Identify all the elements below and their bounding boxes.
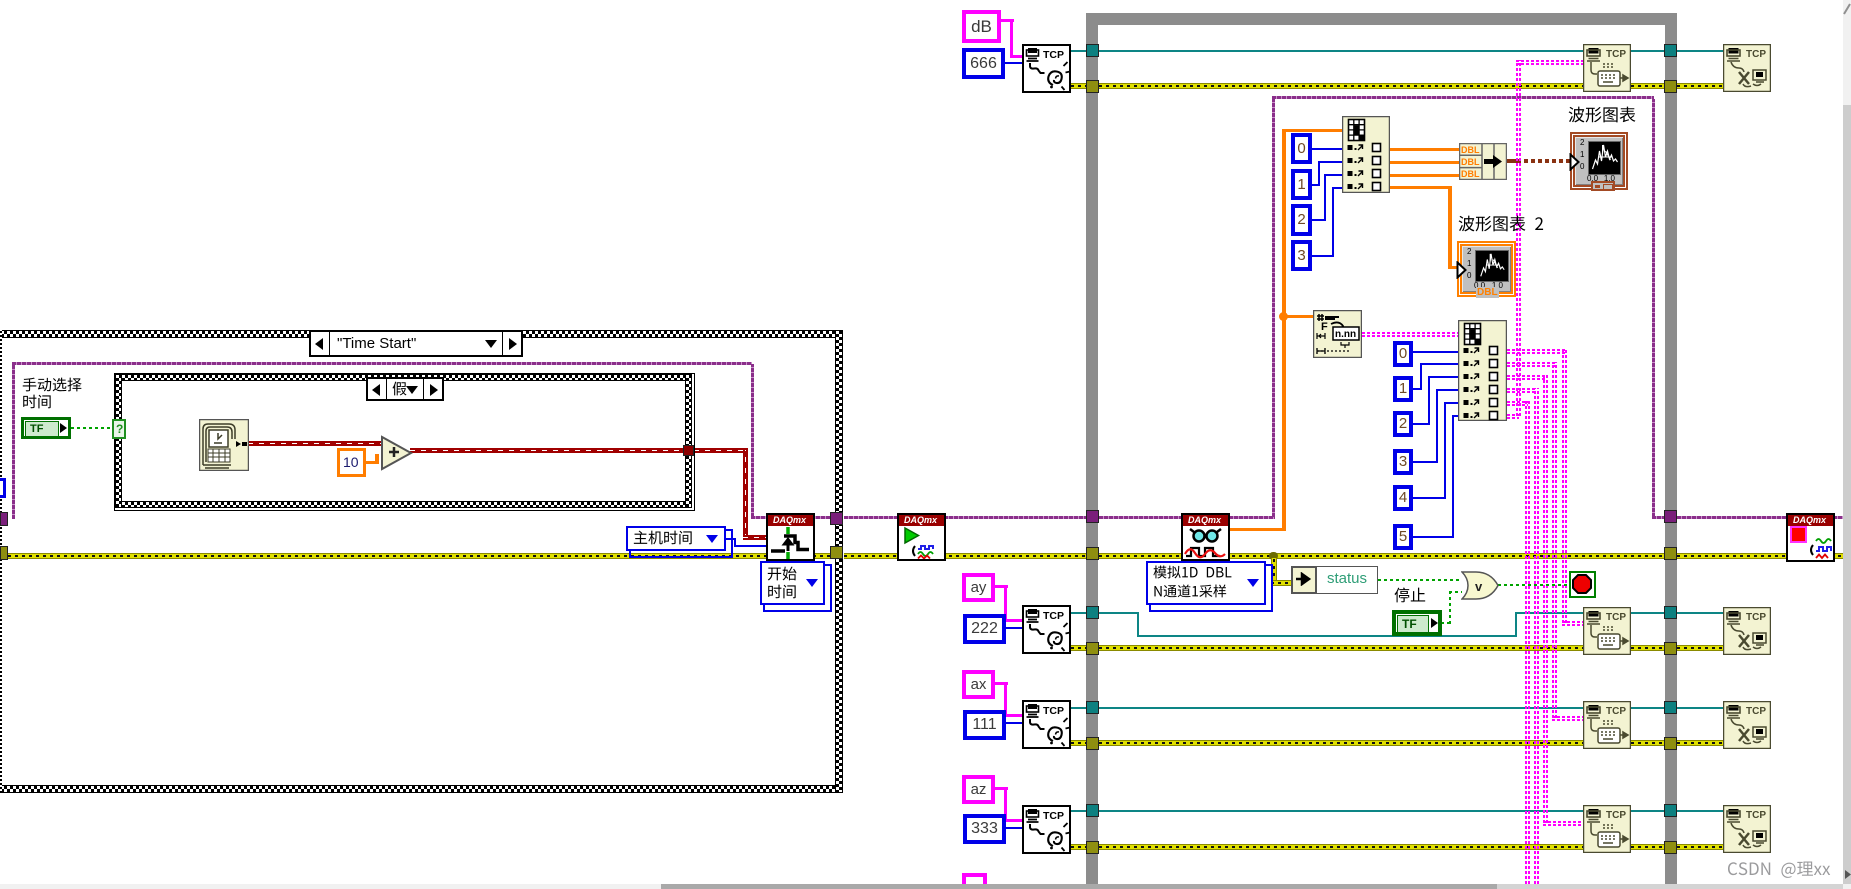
string control az bbox=[962, 775, 995, 804]
case structure Time Start border left bbox=[0, 330, 2, 793]
node index array 1 bbox=[1342, 116, 1390, 193]
tunnel teal loopL ax bbox=[1086, 701, 1099, 714]
while loop border left bbox=[1086, 13, 1098, 884]
svg-text:TCP: TCP bbox=[1746, 810, 1766, 821]
wire string az b bbox=[1004, 787, 1007, 819]
tunnel olive loopL ay bbox=[1086, 642, 1099, 655]
tunnel teal loopL dB bbox=[1086, 44, 1099, 57]
svg-text:F: F bbox=[1321, 321, 1328, 333]
wire string dB b bbox=[1010, 19, 1013, 55]
wire tcpref ay c bbox=[1137, 635, 1517, 637]
label stop bbox=[1394, 587, 1428, 608]
wire orange to chart2 vert bbox=[1448, 186, 1452, 269]
while loop border right bbox=[1665, 13, 1677, 884]
scrollbar right thumb bbox=[1843, 105, 1851, 884]
wire blue 111 bbox=[1006, 722, 1022, 724]
node TCP listener ax bbox=[1022, 700, 1071, 749]
wire blue idx1-1 b bbox=[1318, 161, 1320, 186]
node unbundle status bbox=[1291, 566, 1317, 594]
scrollbar right track bbox=[1843, 0, 1851, 889]
wire orange idx1 out4 bbox=[1390, 186, 1451, 189]
boolean control TF manual bbox=[21, 417, 71, 439]
label waveform chart 1 bbox=[1568, 106, 1638, 128]
wire task purple drop x752 bbox=[751, 364, 754, 517]
numeric control 666 bbox=[962, 48, 1005, 79]
wire string top tcp-write bbox=[1516, 60, 1583, 65]
wire blue idx2-2 a bbox=[1413, 423, 1430, 425]
case structure Time Start border bottom bbox=[0, 785, 843, 793]
node add bbox=[380, 435, 414, 471]
wire blue idx1-0 bbox=[1312, 148, 1346, 150]
wire tcpref ay a bbox=[1071, 612, 1086, 614]
wire blue 666 bbox=[1005, 62, 1022, 64]
ring constant start time bbox=[763, 564, 832, 612]
tunnel purple loopL bbox=[1086, 510, 1099, 523]
numeric control cut at left edge bbox=[0, 478, 6, 498]
wire string ax b bbox=[1004, 682, 1007, 714]
wire tcpref ay b bbox=[1099, 612, 1139, 614]
case structure Time Start border right bbox=[835, 330, 843, 793]
wire blue idx1-2 c bbox=[1324, 174, 1346, 176]
label waveform chart 2 bbox=[1458, 215, 1545, 237]
wire string idx2 r2 c bbox=[1552, 716, 1583, 721]
wire blue idx2-1 a bbox=[1413, 388, 1422, 390]
wire string ay b bbox=[1004, 585, 1007, 619]
tunnel teal loopR az bbox=[1664, 804, 1677, 817]
node DAQmx start trigger bbox=[766, 513, 815, 561]
node TCP close ax bbox=[1723, 701, 1771, 749]
numeric constant 10 bbox=[337, 448, 366, 477]
wire string idx2 r1 c bbox=[1562, 621, 1583, 626]
boolean control TF stop bbox=[1392, 610, 1442, 636]
tunnel olive loopR ay bbox=[1664, 642, 1677, 655]
tunnel olive loopR main bbox=[1664, 547, 1677, 560]
tunnel olive loopL az bbox=[1086, 841, 1099, 854]
tunnel teal loopL ay bbox=[1086, 606, 1099, 619]
numeric constant idx2-1 bbox=[1393, 376, 1413, 402]
wire tcpref dB row a bbox=[1071, 50, 1086, 52]
wire blue idx2-0 bbox=[1413, 351, 1462, 353]
wire blue idx2-2 b bbox=[1428, 376, 1430, 425]
wire task purple top-left run bbox=[12, 362, 752, 365]
wire task purple top run bbox=[1272, 96, 1654, 99]
wire blue idx2-2 c bbox=[1428, 376, 1462, 378]
wire orange read-out bbox=[1230, 528, 1286, 531]
numeric constant idx2-5 bbox=[1393, 524, 1413, 550]
wire orange idx1 out1 bbox=[1390, 148, 1459, 151]
wire error dB row c bbox=[1631, 83, 1664, 89]
wire blue idx2-3 c bbox=[1436, 389, 1462, 391]
wire error ay d bbox=[1677, 645, 1723, 651]
wire timestamp from datetime bbox=[248, 441, 382, 446]
svg-text:DBL: DBL bbox=[1461, 169, 1480, 179]
wire blue idx1-3 b bbox=[1332, 187, 1334, 257]
wire task purple loop-to-read bbox=[1099, 516, 1275, 519]
wire tcpref dB row b bbox=[1099, 50, 1583, 52]
ring constant analog mode bbox=[1149, 564, 1273, 612]
wire blue hosttime b bbox=[734, 538, 736, 546]
numeric control 333 bbox=[963, 814, 1006, 844]
wire task purple vert left edge bbox=[12, 363, 15, 519]
wire error drop to status bbox=[1271, 558, 1277, 583]
wire orange 10-to-add bbox=[366, 461, 378, 464]
svg-text:TCP: TCP bbox=[1746, 612, 1766, 623]
tunnel olive case-right bbox=[830, 546, 843, 559]
string control ax bbox=[962, 670, 995, 699]
svg-text:TCP: TCP bbox=[1606, 810, 1626, 821]
wire blue hosttime c bbox=[734, 545, 767, 547]
wire tcpref dB row c bbox=[1631, 50, 1664, 52]
wire string idx2 r2 a bbox=[1507, 362, 1555, 367]
wire error az b bbox=[1099, 844, 1583, 850]
wire bool manual-tf bbox=[71, 427, 112, 429]
wire error ax d bbox=[1677, 740, 1723, 746]
numeric constant idx1-0 bbox=[1291, 133, 1312, 164]
svg-text:TCP: TCP bbox=[1043, 610, 1064, 622]
wire task purple after clear bbox=[1833, 516, 1843, 519]
wire string idx2 r4 a bbox=[1507, 388, 1537, 393]
wire task purple into trigger bbox=[751, 516, 830, 519]
numeric control 111 bbox=[963, 710, 1006, 740]
wire error ay c bbox=[1631, 645, 1664, 651]
wire timestamp into trigger bbox=[743, 535, 767, 540]
wire bool or-stop bbox=[1498, 584, 1570, 586]
wire blue idx1-3 c bbox=[1332, 187, 1346, 189]
wire blue idx2-4 b bbox=[1444, 402, 1446, 499]
case structure Time Start border top bbox=[0, 330, 843, 338]
node TCP close dB bbox=[1723, 44, 1771, 92]
wire string idx2 r3 a bbox=[1507, 375, 1546, 380]
tunnel red inner-case bbox=[683, 445, 694, 456]
numeric constant idx2-4 bbox=[1393, 485, 1413, 511]
wire orange to nnn node bbox=[1286, 315, 1313, 318]
svg-text:TCP: TCP bbox=[1043, 705, 1064, 717]
wire error ax b bbox=[1099, 740, 1583, 746]
wire orange idx1 out3 bbox=[1390, 174, 1459, 177]
node TCP close az bbox=[1723, 805, 1771, 853]
wire timestamp to x745 bbox=[694, 448, 748, 453]
wire blue 222 bbox=[1006, 627, 1022, 629]
wire error az c bbox=[1631, 844, 1664, 850]
tunnel teal loopR dB bbox=[1664, 44, 1677, 57]
wire error az a bbox=[1071, 844, 1086, 850]
string control cut bottom bbox=[962, 873, 987, 884]
case selector Time Start bbox=[309, 330, 523, 357]
wire string idx2 r5 b bbox=[1525, 401, 1530, 884]
wire timestamp add-out bbox=[410, 448, 688, 453]
numeric constant idx2-0 bbox=[1393, 341, 1413, 367]
wire error az d bbox=[1677, 844, 1723, 850]
node TCP listener dB bbox=[1022, 44, 1071, 93]
wire blue hosttime a bbox=[726, 538, 736, 540]
tunnel olive loopL dB bbox=[1086, 80, 1099, 93]
ring constant host time bbox=[629, 529, 733, 558]
wire string dB a bbox=[1000, 19, 1014, 22]
wire string idx2 r2 b bbox=[1552, 362, 1557, 718]
case selector false bbox=[366, 377, 444, 401]
svg-text:TCP: TCP bbox=[1606, 612, 1626, 623]
wire string ay a bbox=[995, 585, 1008, 588]
wire string idx2 r4 b bbox=[1534, 388, 1539, 884]
svg-text:TCP: TCP bbox=[1746, 49, 1766, 60]
wire bool status-or bbox=[1378, 579, 1462, 581]
wire error dB row a bbox=[1071, 83, 1086, 89]
svg-text:TCP: TCP bbox=[1043, 49, 1064, 61]
numeric control 222 bbox=[963, 614, 1006, 644]
while loop border top bbox=[1086, 13, 1677, 25]
wire cluster bundle-chart1 bbox=[1517, 159, 1570, 163]
wire orange main vert bbox=[1282, 129, 1286, 531]
wire blue idx1-2 b bbox=[1324, 174, 1326, 221]
tunnel teal loopR ay bbox=[1664, 606, 1677, 619]
indicator waveform chart 2 bbox=[1457, 241, 1516, 297]
wire tcpref ax d bbox=[1677, 707, 1723, 709]
wire error ay b bbox=[1099, 645, 1583, 651]
wire tcpref ay d bbox=[1515, 612, 1583, 614]
watermark dot bbox=[1845, 870, 1851, 879]
wire tcpref ax c bbox=[1631, 707, 1664, 709]
wire tcpref ax a bbox=[1071, 707, 1086, 709]
wire task purple down x1652 bbox=[1652, 99, 1655, 517]
tunnel teal loopL az bbox=[1086, 804, 1099, 817]
wire string idx2 r3 b bbox=[1543, 375, 1548, 823]
node TCP write ax bbox=[1583, 701, 1631, 749]
node bundle DBL bbox=[1459, 143, 1507, 180]
wire blue idx2-3 a bbox=[1413, 461, 1438, 463]
wire tcpref ax b bbox=[1099, 707, 1583, 709]
wire error dB row d bbox=[1677, 83, 1723, 89]
wire string dB c bbox=[1010, 55, 1022, 58]
wire error into status bbox=[1271, 580, 1292, 586]
wire string ay c bbox=[1004, 619, 1022, 622]
tunnel purple case-left bbox=[0, 512, 8, 526]
numeric constant idx2-2 bbox=[1393, 411, 1413, 437]
wire tcpref ay jog down bbox=[1137, 612, 1139, 636]
wire blue idx2-1 b bbox=[1420, 363, 1422, 390]
wire tcpref az a bbox=[1071, 810, 1086, 812]
wire blue idx1-3 a bbox=[1312, 255, 1334, 257]
wire blue idx2-5 b bbox=[1452, 415, 1454, 538]
scrollbar bottom track bbox=[0, 884, 1851, 889]
wire blue idx2-3 b bbox=[1436, 389, 1438, 463]
wire blue idx2-5 c bbox=[1452, 415, 1462, 417]
indicator status text bbox=[1316, 566, 1378, 594]
numeric constant idx1-2 bbox=[1291, 204, 1312, 236]
svg-text:TCP: TCP bbox=[1606, 49, 1626, 60]
node or gate bbox=[1461, 571, 1500, 600]
indicator waveform chart 1 bbox=[1570, 132, 1628, 190]
wire blue idx2-4 a bbox=[1413, 497, 1446, 499]
wire string idx2 r6 b bbox=[1516, 60, 1521, 416]
wire error ax a bbox=[1071, 740, 1086, 746]
wire error ay a bbox=[1071, 645, 1086, 651]
wire bool tf b bbox=[1449, 591, 1451, 624]
wire task purple up x1272 bbox=[1272, 98, 1275, 517]
scrollbar bottom thumb bbox=[661, 884, 1497, 889]
node TCP close ay bbox=[1723, 607, 1771, 655]
wire tcpref ay f bbox=[1677, 612, 1723, 614]
tunnel olive loopR dB bbox=[1664, 80, 1677, 93]
wire blue idx1-2 a bbox=[1312, 219, 1326, 221]
svg-text:DBL: DBL bbox=[1461, 145, 1480, 155]
wire string idx2 r1 a bbox=[1507, 349, 1565, 354]
wire tcpref az b bbox=[1099, 810, 1583, 812]
junction orange bbox=[1279, 312, 1288, 321]
scrollbar right arrow bbox=[1843, 2, 1851, 16]
wire orange idx1 out2 bbox=[1390, 161, 1459, 164]
wire bool tf a bbox=[1441, 622, 1452, 624]
node DAQmx read bbox=[1181, 513, 1230, 561]
numeric constant idx1-1 bbox=[1291, 169, 1312, 200]
svg-text:TCP: TCP bbox=[1606, 706, 1626, 717]
tunnel purple loopR bbox=[1664, 510, 1677, 523]
wire blue idx2-1 c bbox=[1420, 363, 1462, 365]
wire error main right bbox=[1677, 553, 1843, 559]
node index array 2 bbox=[1458, 320, 1507, 421]
wire error ax c bbox=[1631, 740, 1664, 746]
tunnel teal loopR ax bbox=[1664, 701, 1677, 714]
node TCP listener ay bbox=[1022, 605, 1071, 654]
svg-text:DBL: DBL bbox=[1461, 157, 1480, 167]
wire tcpref dB row d bbox=[1677, 50, 1723, 52]
string control dB bbox=[962, 10, 1001, 43]
wire string az a bbox=[995, 787, 1008, 790]
wire tcpref ay e bbox=[1631, 612, 1664, 614]
wire error dB row b bbox=[1099, 83, 1583, 89]
node TCP write ay bbox=[1583, 607, 1631, 655]
wire string az c bbox=[1004, 819, 1022, 822]
wire error main loop bbox=[1099, 553, 1664, 559]
node TCP listener az bbox=[1022, 805, 1071, 854]
tunnel olive loopR ax bbox=[1664, 737, 1677, 750]
wire blue idx1-1 a bbox=[1312, 184, 1320, 186]
junction error main bbox=[1269, 552, 1278, 560]
numeric constant idx1-3 bbox=[1291, 240, 1312, 271]
wire error main mid bbox=[844, 553, 1086, 559]
label manual select time line2 bbox=[22, 394, 54, 414]
svg-text:TCP: TCP bbox=[1746, 706, 1766, 717]
case structure inner false border bbox=[114, 373, 695, 511]
wire bool tf c bbox=[1449, 591, 1462, 593]
wire orange 10 jog bbox=[375, 454, 379, 464]
tunnel olive loopR az bbox=[1664, 841, 1677, 854]
node number to fractional string bbox=[1313, 310, 1362, 358]
tunnel olive case-left bbox=[0, 546, 8, 560]
wire string idx2 r1 b bbox=[1562, 349, 1567, 623]
wire string ax a bbox=[995, 682, 1008, 685]
node get date-time in seconds bbox=[199, 419, 249, 471]
wire string idx2 r3 c bbox=[1543, 821, 1583, 826]
svg-text:n.nn: n.nn bbox=[1335, 329, 1356, 340]
node DAQmx clear task bbox=[1786, 513, 1835, 562]
wire timestamp drop bbox=[743, 450, 748, 539]
terminal loop stop sign bbox=[1569, 571, 1596, 598]
tunnel purple case-right bbox=[830, 512, 843, 525]
wire task purple to right tunnel bbox=[1652, 516, 1664, 519]
wire blue 333 bbox=[1006, 827, 1022, 829]
tunnel olive loopL main bbox=[1086, 547, 1099, 560]
wire blue idx2-4 c bbox=[1444, 402, 1462, 404]
tunnel olive loopL ax bbox=[1086, 737, 1099, 750]
svg-text:TCP: TCP bbox=[1043, 810, 1064, 822]
wire tcpref ay jog up bbox=[1515, 612, 1517, 637]
wire cluster bundle-chart1 stub bbox=[1507, 159, 1517, 163]
wire string nnn-idx2 bbox=[1362, 332, 1458, 337]
wire tcpref az d bbox=[1677, 810, 1723, 812]
wire orange to indexarray1 bbox=[1286, 129, 1342, 132]
wire task purple tunnel-to-clear bbox=[1677, 516, 1790, 519]
node DAQmx start task bbox=[897, 513, 946, 561]
label manual select time line1 bbox=[22, 377, 84, 397]
wire string idx2 r6 a bbox=[1507, 414, 1519, 419]
case selector terminal ? bbox=[112, 419, 126, 439]
svg-text:v: v bbox=[1475, 579, 1483, 594]
wire task purple case-to-loop bbox=[844, 516, 1086, 519]
watermark CSDN bbox=[1727, 860, 1832, 883]
wire string idx2 r5 a bbox=[1507, 401, 1528, 406]
node TCP write az bbox=[1583, 805, 1631, 853]
string control ay bbox=[962, 573, 995, 602]
numeric constant idx2-3 bbox=[1393, 449, 1413, 475]
wire tcpref az c bbox=[1631, 810, 1664, 812]
scrollbar bottom right part bbox=[1497, 884, 1851, 889]
wire blue idx2-5 a bbox=[1413, 536, 1454, 538]
node TCP write dB bbox=[1583, 44, 1631, 92]
wire string ax c bbox=[1004, 714, 1022, 717]
wire orange to chart2 bbox=[1448, 266, 1459, 269]
wire blue idx1-1 c bbox=[1318, 161, 1346, 163]
wire error main left bbox=[8, 553, 830, 559]
